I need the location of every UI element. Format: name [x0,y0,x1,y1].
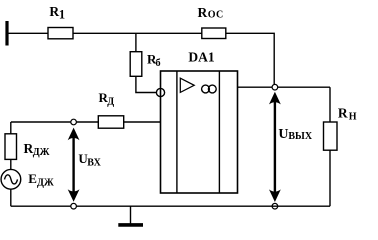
bottom rail [11,205,330,207]
svg-text:б: б [155,58,160,69]
label Rdzh [24,141,50,158]
wire Rn to bottom rail [329,150,331,206]
label Uout [278,127,312,142]
label Roc [198,5,224,21]
wire Rd to op-amp noninverting input [124,121,161,123]
arrow Uout [269,92,281,202]
svg-text:U: U [278,127,288,142]
wire source to bottom rail [10,189,12,206]
label R1 [49,4,65,22]
ground [118,206,143,225]
svg-text:Е: Е [28,171,37,186]
label Rn [338,105,357,122]
input terminal [5,21,8,46]
svg-text:DA1: DA1 [188,50,214,65]
wire Rdzh to source [10,159,12,169]
wire top rail to Rb [135,33,137,51]
label Edzh [28,171,54,188]
node Uin top [71,119,77,125]
wire op-amp output to Rn branch [238,86,331,88]
op-amp DA1 [161,71,238,193]
node output [272,84,278,90]
node Uout bottom [272,203,278,209]
arrow Uin [68,128,80,202]
wire terminal to R1 [8,32,48,34]
resistor Rdzh [5,134,17,160]
svg-text:R: R [198,5,208,20]
svg-text:ВЫХ: ВЫХ [288,131,312,142]
wire source branch top [10,122,12,134]
wire Rn branch down to resistor [329,87,331,122]
svg-text:Н: Н [349,112,357,123]
svg-text:ДЖ: ДЖ [33,147,50,158]
resistor R1 [48,28,73,39]
wire Rb to inverting input [136,76,157,92]
resistor Rd [98,116,123,128]
svg-text:R: R [338,105,348,120]
svg-text:ДЖ: ДЖ [37,177,54,188]
resistor Roc [202,28,226,39]
resistor Rn [324,122,338,150]
label Uin [78,151,101,168]
svg-text:ОС: ОС [208,10,224,21]
svg-text:R: R [49,4,59,19]
label Rb [147,52,161,69]
svg-text:ВХ: ВХ [87,157,101,168]
label Rd [99,90,115,108]
source Edzh [1,169,21,189]
node Uin bottom [71,203,77,209]
svg-text:1: 1 [59,8,65,22]
svg-text:Д: Д [107,97,114,108]
resistor Rb [130,52,142,77]
wire Roc to output node [226,33,274,84]
wire input top rail [11,121,98,123]
wire R1 to Roc [73,32,202,34]
inverting input bubble [156,88,164,96]
